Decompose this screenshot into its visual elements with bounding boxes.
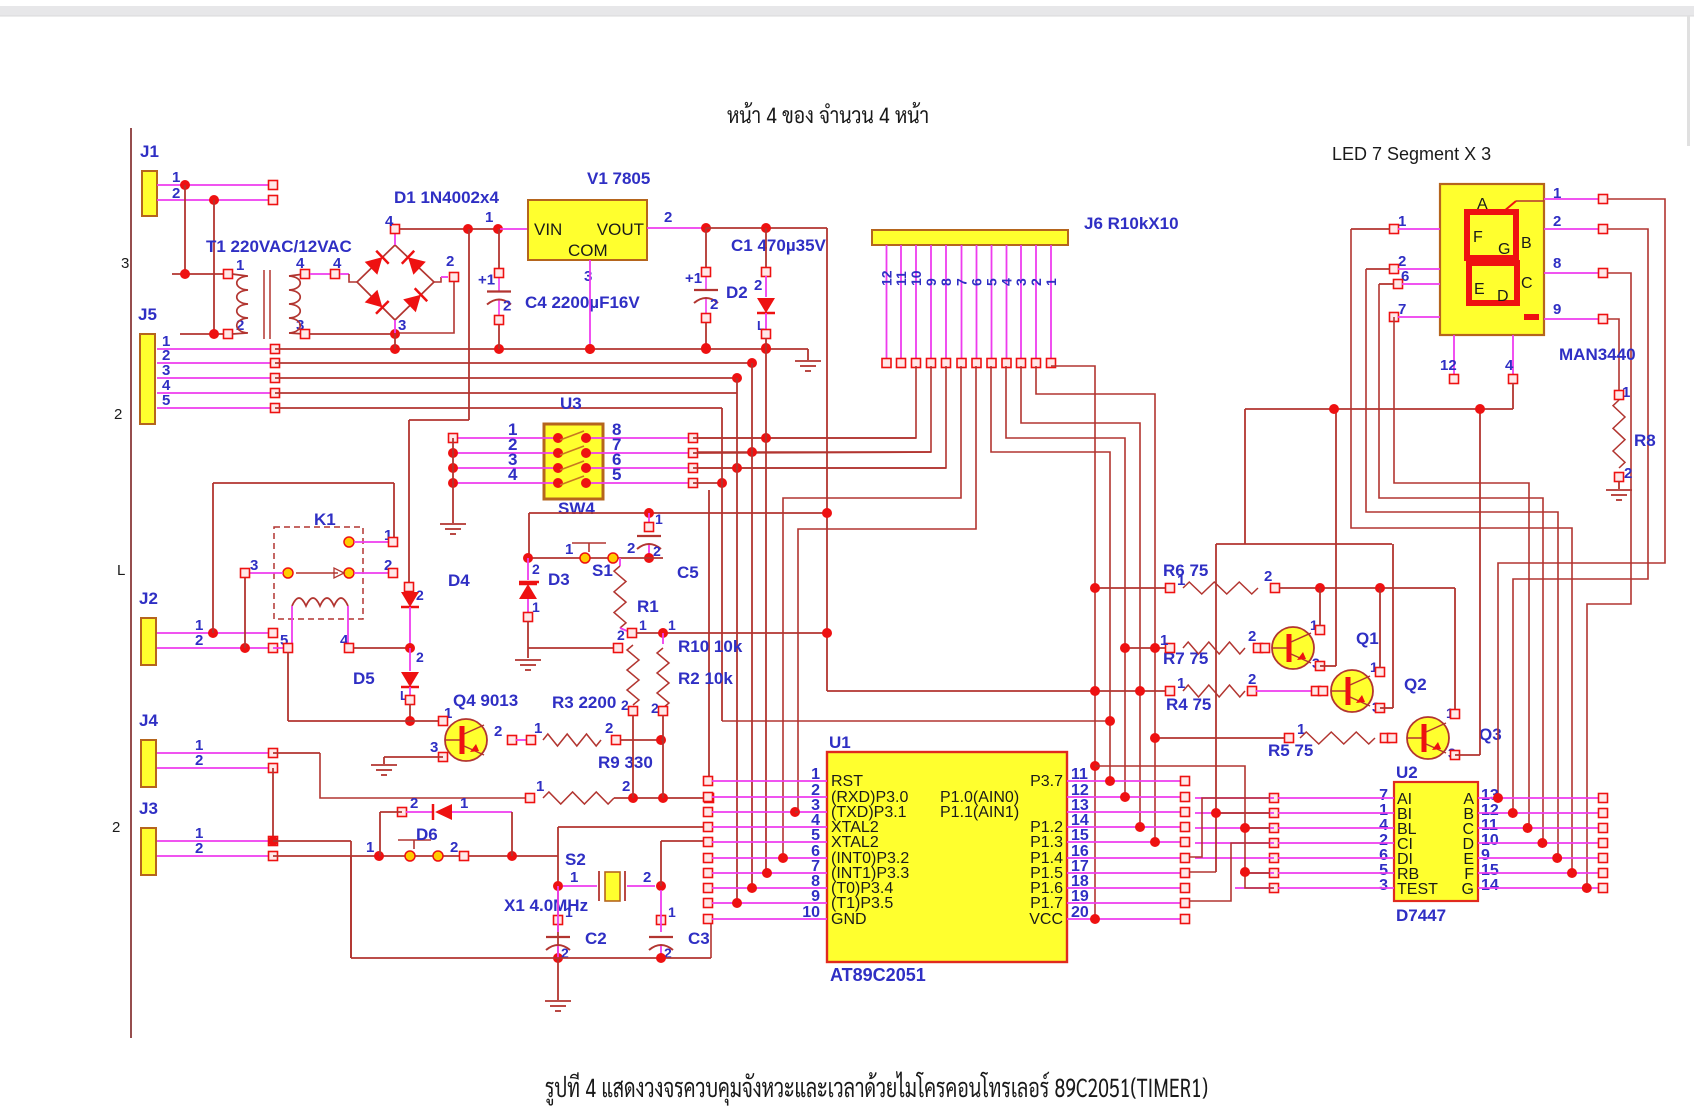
svg-text:VOUT: VOUT <box>597 220 644 239</box>
svg-text:S1: S1 <box>592 561 613 580</box>
svg-text:R5 75: R5 75 <box>1268 741 1313 760</box>
svg-text:VIN: VIN <box>534 220 562 239</box>
svg-text:U2: U2 <box>1396 763 1418 782</box>
svg-text:R6 75: R6 75 <box>1163 561 1208 580</box>
svg-text:2: 2 <box>195 752 203 769</box>
svg-text:5: 5 <box>612 465 621 484</box>
svg-text:C4 2200µF16V: C4 2200µF16V <box>525 293 640 312</box>
svg-text:J1: J1 <box>140 142 159 161</box>
svg-text:12: 12 <box>1440 357 1457 374</box>
svg-text:2: 2 <box>416 649 424 665</box>
svg-text:5: 5 <box>984 278 1000 286</box>
svg-text:2: 2 <box>622 778 630 795</box>
svg-text:1: 1 <box>485 209 493 226</box>
svg-text:10: 10 <box>908 270 924 286</box>
svg-text:1: 1 <box>236 257 244 274</box>
svg-text:2: 2 <box>653 543 661 559</box>
svg-text:2: 2 <box>112 819 120 836</box>
svg-text:Q1: Q1 <box>1356 629 1379 648</box>
svg-text:R4 75: R4 75 <box>1166 695 1211 714</box>
svg-text:2: 2 <box>195 840 203 857</box>
svg-text:6: 6 <box>969 278 985 286</box>
svg-text:AT89C2051: AT89C2051 <box>830 965 926 985</box>
svg-text:1: 1 <box>565 904 573 920</box>
svg-text:Q4 9013: Q4 9013 <box>453 691 518 710</box>
svg-text:2: 2 <box>450 839 458 856</box>
svg-text:T1 220VAC/12VAC: T1 220VAC/12VAC <box>206 237 352 256</box>
svg-text:1: 1 <box>639 617 647 633</box>
svg-text:SW4: SW4 <box>558 499 595 518</box>
svg-text:(T1)P3.5: (T1)P3.5 <box>831 895 893 912</box>
svg-text:R10 10k: R10 10k <box>678 637 743 656</box>
svg-text:2: 2 <box>643 869 651 886</box>
svg-text:2: 2 <box>627 540 635 557</box>
svg-text:D7447: D7447 <box>1396 906 1446 925</box>
svg-text:3: 3 <box>430 739 438 756</box>
svg-text:J4: J4 <box>139 711 158 730</box>
svg-text:1: 1 <box>460 795 468 812</box>
svg-text:8: 8 <box>1553 255 1561 272</box>
svg-text:P1.1(AIN1): P1.1(AIN1) <box>940 804 1019 821</box>
svg-text:1: 1 <box>565 541 573 558</box>
svg-text:J2: J2 <box>139 589 158 608</box>
svg-text:2: 2 <box>446 253 454 270</box>
svg-text:2: 2 <box>195 632 203 649</box>
svg-text:COM: COM <box>568 241 608 260</box>
svg-text:1: 1 <box>172 169 180 186</box>
svg-text:S2: S2 <box>565 850 586 869</box>
svg-text:C: C <box>1521 275 1533 292</box>
svg-text:2: 2 <box>1248 628 1256 645</box>
svg-text:9: 9 <box>923 278 939 286</box>
svg-text:K1: K1 <box>314 510 336 529</box>
svg-text:1: 1 <box>1043 278 1059 286</box>
svg-text:RST: RST <box>831 773 863 790</box>
svg-text:C5: C5 <box>677 563 699 582</box>
svg-text:2: 2 <box>416 587 424 603</box>
svg-text:G: G <box>1462 881 1474 898</box>
svg-text:R1: R1 <box>637 597 659 616</box>
svg-text:U1: U1 <box>829 733 851 752</box>
svg-text:+1: +1 <box>685 270 702 287</box>
svg-text:J6 R10kX10: J6 R10kX10 <box>1084 214 1179 233</box>
svg-text:MAN3440: MAN3440 <box>1559 345 1636 364</box>
svg-text:3: 3 <box>121 255 129 272</box>
svg-text:3: 3 <box>584 268 592 285</box>
svg-text:D4: D4 <box>448 571 470 590</box>
svg-text:R3 2200: R3 2200 <box>552 693 616 712</box>
svg-text:2: 2 <box>1624 465 1632 482</box>
svg-text:5: 5 <box>162 392 170 409</box>
svg-text:8: 8 <box>938 278 954 286</box>
svg-text:X1 4.0MHz: X1 4.0MHz <box>504 896 588 915</box>
svg-text:C3: C3 <box>688 929 710 948</box>
svg-text:VCC: VCC <box>1029 911 1063 928</box>
svg-text:2: 2 <box>754 277 762 294</box>
svg-text:1: 1 <box>570 869 578 886</box>
svg-text:2: 2 <box>710 296 718 313</box>
svg-text:U3: U3 <box>560 394 582 413</box>
svg-text:9: 9 <box>1553 301 1561 318</box>
svg-text:3: 3 <box>398 317 406 334</box>
svg-text:3: 3 <box>1013 278 1029 286</box>
svg-text:3: 3 <box>1379 877 1388 894</box>
svg-text:1: 1 <box>1297 721 1305 738</box>
svg-text:2: 2 <box>503 298 511 315</box>
svg-text:2: 2 <box>1264 568 1272 585</box>
svg-text:D1 1N4002x4: D1 1N4002x4 <box>394 188 499 207</box>
svg-text:G: G <box>1498 241 1510 258</box>
svg-text:P1.7: P1.7 <box>1030 895 1063 912</box>
svg-text:2: 2 <box>114 406 122 423</box>
svg-text:P3.7: P3.7 <box>1030 773 1063 790</box>
svg-text:2: 2 <box>664 209 672 226</box>
svg-text:C1 470µ35V: C1 470µ35V <box>731 236 827 255</box>
svg-text:TEST: TEST <box>1397 881 1438 898</box>
svg-text:2: 2 <box>410 795 418 812</box>
svg-text:1: 1 <box>366 839 374 856</box>
svg-text:14: 14 <box>1481 877 1499 894</box>
svg-text:LED 7 Segment X 3: LED 7 Segment X 3 <box>1332 144 1491 164</box>
svg-text:3: 3 <box>250 557 258 574</box>
svg-text:4: 4 <box>508 465 518 484</box>
svg-text:V1 7805: V1 7805 <box>587 169 650 188</box>
svg-text:J5: J5 <box>138 305 157 324</box>
svg-text:D3: D3 <box>548 570 570 589</box>
svg-text:XTAL2: XTAL2 <box>831 834 879 851</box>
svg-text:GND: GND <box>831 911 867 928</box>
svg-text:11: 11 <box>893 271 909 286</box>
svg-text:+1: +1 <box>478 272 495 289</box>
svg-text:2: 2 <box>1553 213 1561 230</box>
svg-text:D2: D2 <box>726 283 748 302</box>
svg-text:2: 2 <box>605 720 613 737</box>
svg-text:R8: R8 <box>1634 431 1656 450</box>
svg-text:1: 1 <box>668 904 676 920</box>
svg-text:D6: D6 <box>416 825 438 844</box>
svg-text:B: B <box>1521 235 1532 252</box>
svg-text:J3: J3 <box>139 799 158 818</box>
svg-text:Q2: Q2 <box>1404 675 1427 694</box>
svg-text:2: 2 <box>1028 278 1044 286</box>
svg-text:4: 4 <box>385 213 394 230</box>
svg-text:1: 1 <box>536 778 544 795</box>
svg-text:1: 1 <box>534 720 542 737</box>
svg-text:P1.3: P1.3 <box>1030 834 1063 851</box>
svg-text:1: 1 <box>655 511 663 527</box>
svg-text:F: F <box>1473 229 1483 246</box>
svg-text:R2 10k: R2 10k <box>678 669 733 688</box>
svg-text:1: 1 <box>668 617 676 633</box>
svg-text:L: L <box>117 562 125 579</box>
svg-text:D: D <box>1497 288 1509 305</box>
svg-text:2: 2 <box>1248 671 1256 688</box>
svg-text:4: 4 <box>1505 357 1514 374</box>
svg-text:R9 330: R9 330 <box>598 753 653 772</box>
svg-text:C2: C2 <box>585 929 607 948</box>
svg-text:D5: D5 <box>353 669 375 688</box>
svg-text:2: 2 <box>532 561 540 577</box>
svg-text:7: 7 <box>954 278 970 286</box>
svg-text:2: 2 <box>494 723 502 740</box>
svg-text:1: 1 <box>1160 632 1168 649</box>
svg-text:E: E <box>1474 281 1485 298</box>
svg-text:A: A <box>1477 196 1488 213</box>
